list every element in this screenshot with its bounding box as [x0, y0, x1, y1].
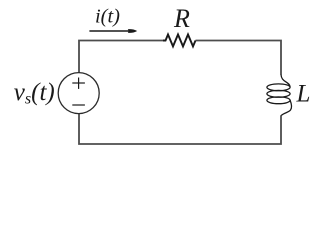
svg-text:L: L: [296, 81, 311, 108]
voltage source vs(t): [58, 73, 99, 114]
resistor R: [163, 35, 196, 47]
wire top-right segment: [196, 41, 282, 75]
arrowhead: [128, 29, 137, 33]
svg-text:i(t): i(t): [95, 6, 120, 28]
wire top-left segment: [79, 41, 163, 73]
svg-text:vs(t): vs(t): [14, 79, 55, 108]
minus sign: [72, 104, 85, 106]
wire bottom segment: [79, 114, 281, 145]
plus sign: [72, 78, 85, 89]
inductor L: [267, 75, 292, 116]
current arrow i(t): [89, 30, 130, 32]
svg-text:R: R: [173, 4, 190, 33]
